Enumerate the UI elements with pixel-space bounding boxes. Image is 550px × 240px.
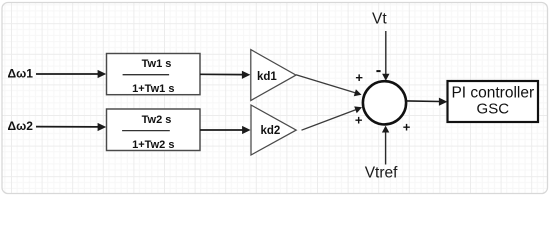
svg-text:+: + xyxy=(355,112,363,127)
svg-text:Vt: Vt xyxy=(372,10,387,27)
wire kd2 to summer (with small gap after apex) xyxy=(302,110,357,131)
wire Vt to summer xyxy=(385,31,387,75)
svg-text:Tw2 s: Tw2 s xyxy=(142,114,172,126)
svg-text:Δω1: Δω1 xyxy=(8,67,34,81)
wire from Δω2 to washout block 2 xyxy=(36,126,99,128)
wire from block 2 to gain kd2 xyxy=(200,129,244,131)
sign - (Vt input) xyxy=(376,70,380,72)
svg-text:1+Tw1 s: 1+Tw1 s xyxy=(132,83,174,95)
wire Vtref to summer xyxy=(385,132,387,165)
svg-text:Vtref: Vtref xyxy=(365,165,398,182)
svg-text:PI controller: PI controller xyxy=(451,85,534,102)
svg-text:Δω2: Δω2 xyxy=(8,119,34,133)
svg-text:+: + xyxy=(403,120,411,135)
gain kd2 (triangle) xyxy=(251,105,296,155)
svg-text:Tw1 s: Tw1 s xyxy=(142,58,172,70)
svg-text:GSC: GSC xyxy=(477,100,510,117)
washout block 2 (Tw2 s / 1+Tw2 s) xyxy=(107,109,201,151)
fraction bar block 1 xyxy=(123,74,170,76)
wire from block 1 to gain kd1 xyxy=(200,73,244,75)
washout block 1 (Tw1 s / 1+Tw1 s) xyxy=(107,54,201,95)
canvas frame xyxy=(2,3,548,194)
wire from Δω1 to washout block 1 xyxy=(36,73,99,75)
block PI controller GSC xyxy=(448,81,539,122)
wire summer to PI controller xyxy=(407,100,441,103)
wire kd1 to summer xyxy=(296,75,356,93)
summing junction xyxy=(363,81,406,124)
svg-text:kd1: kd1 xyxy=(257,71,277,83)
svg-text:1+Tw2 s: 1+Tw2 s xyxy=(132,139,174,151)
fraction bar block 2 xyxy=(122,130,170,132)
svg-text:+: + xyxy=(355,70,363,85)
svg-text:kd2: kd2 xyxy=(261,125,281,137)
gain kd1 (triangle) xyxy=(251,50,296,101)
